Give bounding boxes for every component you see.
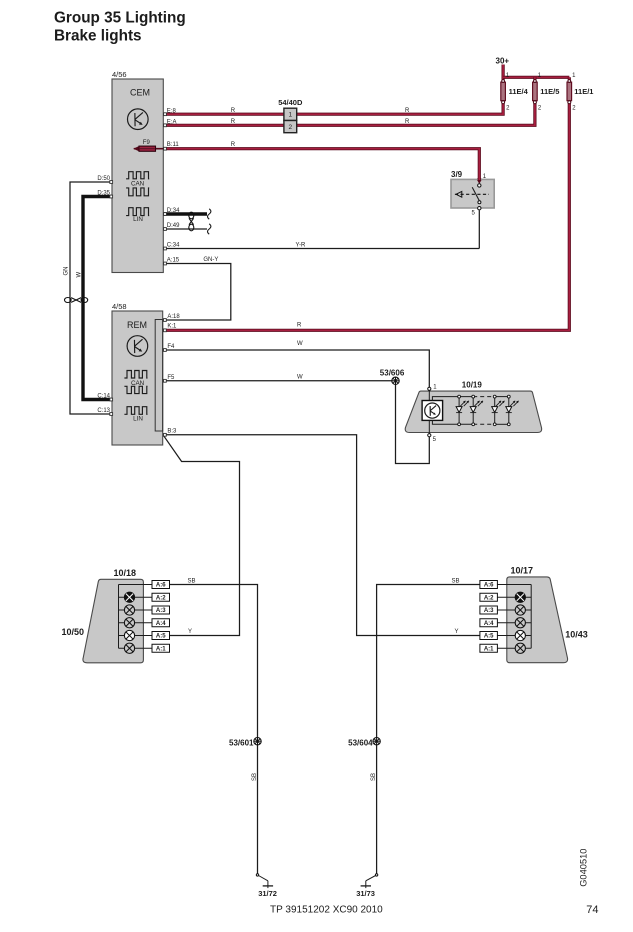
svg-text:F9: F9 — [143, 140, 151, 146]
svg-text:A:6: A:6 — [484, 583, 494, 589]
svg-text:A:15: A:15 — [167, 258, 180, 264]
svg-text:Y: Y — [188, 629, 192, 635]
svg-text:W: W — [297, 341, 303, 347]
svg-text:LIN: LIN — [133, 216, 143, 223]
svg-text:31/72: 31/72 — [258, 889, 277, 898]
svg-text:A:5: A:5 — [156, 634, 166, 640]
svg-text:A:4: A:4 — [156, 621, 166, 627]
svg-text:C:13: C:13 — [97, 408, 110, 414]
svg-text:W: W — [76, 272, 82, 278]
svg-text:A:5: A:5 — [484, 634, 494, 640]
svg-text:R: R — [405, 108, 410, 114]
svg-text:B:11: B:11 — [167, 142, 180, 148]
svg-text:4/58: 4/58 — [112, 302, 127, 311]
svg-text:11E/5: 11E/5 — [540, 87, 559, 96]
svg-text:Brake lights: Brake lights — [54, 28, 142, 45]
svg-text:TP 39151202 XC90 2010: TP 39151202 XC90 2010 — [270, 905, 383, 916]
svg-text:53/601: 53/601 — [229, 739, 254, 748]
svg-text:CAN: CAN — [131, 181, 145, 188]
svg-text:30+: 30+ — [496, 57, 510, 66]
svg-text:4/56: 4/56 — [112, 70, 127, 79]
svg-text:SB: SB — [371, 773, 377, 781]
svg-text:31/73: 31/73 — [356, 889, 375, 898]
svg-text:A:2: A:2 — [484, 595, 494, 601]
svg-text:R: R — [297, 323, 302, 329]
svg-text:A:4: A:4 — [484, 621, 494, 627]
svg-text:R: R — [231, 108, 236, 114]
svg-text:F5: F5 — [167, 375, 175, 381]
svg-text:SB: SB — [188, 578, 196, 584]
svg-text:C:34: C:34 — [167, 243, 180, 249]
svg-text:2: 2 — [288, 124, 292, 131]
svg-text:10/18: 10/18 — [114, 568, 137, 578]
svg-text:A:1: A:1 — [156, 646, 166, 652]
svg-text:G040510: G040510 — [578, 849, 588, 887]
svg-text:11E/4: 11E/4 — [509, 87, 529, 96]
svg-text:D:34: D:34 — [167, 208, 180, 214]
svg-text:R: R — [231, 119, 236, 125]
svg-text:10/50: 10/50 — [62, 627, 85, 637]
svg-text:10/17: 10/17 — [511, 566, 534, 576]
svg-text:Group 35 Lighting: Group 35 Lighting — [54, 10, 186, 27]
svg-text:SB: SB — [252, 773, 258, 781]
svg-text:53/606: 53/606 — [380, 368, 405, 377]
svg-text:LIN: LIN — [133, 416, 143, 423]
svg-text:74: 74 — [586, 904, 598, 916]
svg-text:Y-R: Y-R — [296, 242, 306, 248]
svg-text:D:35: D:35 — [97, 191, 110, 197]
svg-text:R: R — [405, 119, 410, 125]
svg-text:3/9: 3/9 — [451, 170, 463, 179]
svg-text:E:A: E:A — [167, 119, 177, 125]
svg-text:10/43: 10/43 — [565, 630, 588, 640]
svg-text:54/40D: 54/40D — [278, 98, 303, 107]
svg-text:R: R — [231, 142, 236, 148]
svg-text:A:3: A:3 — [484, 608, 494, 614]
svg-text:A:6: A:6 — [156, 583, 166, 589]
svg-text:E:8: E:8 — [167, 108, 177, 114]
svg-text:D:49: D:49 — [167, 223, 180, 229]
svg-text:CEM: CEM — [130, 88, 150, 98]
svg-text:GN: GN — [64, 267, 70, 276]
svg-text:10/19: 10/19 — [462, 380, 483, 389]
svg-text:K:1: K:1 — [167, 323, 177, 329]
svg-text:1: 1 — [288, 112, 292, 119]
svg-text:SB: SB — [452, 578, 460, 584]
svg-text:F4: F4 — [167, 344, 175, 350]
svg-text:GN-Y: GN-Y — [203, 257, 218, 263]
svg-text:A:1: A:1 — [484, 646, 494, 652]
svg-text:A:2: A:2 — [156, 595, 166, 601]
svg-text:D:50: D:50 — [97, 176, 110, 182]
svg-text:Y: Y — [455, 629, 459, 635]
svg-text:B:3: B:3 — [167, 429, 177, 435]
svg-text:W: W — [297, 375, 303, 381]
svg-text:53/604: 53/604 — [348, 739, 373, 748]
svg-text:A:18: A:18 — [167, 314, 180, 320]
svg-text:A:3: A:3 — [156, 608, 166, 614]
svg-text:11E/1: 11E/1 — [574, 87, 593, 96]
svg-text:REM: REM — [127, 320, 147, 330]
svg-text:C:14: C:14 — [97, 394, 110, 400]
